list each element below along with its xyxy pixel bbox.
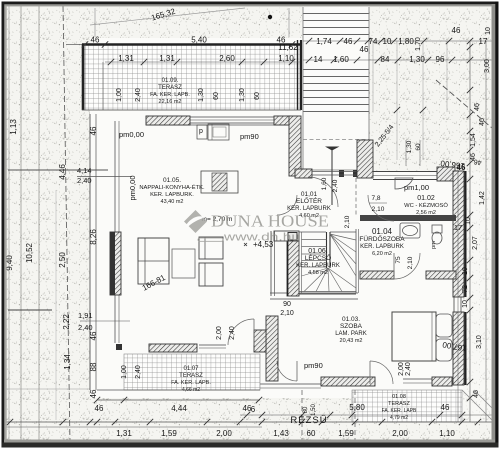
svg-text:1,54: 1,54 — [470, 133, 477, 147]
svg-text:1,42: 1,42 — [479, 191, 486, 205]
svg-text:60: 60 — [213, 92, 220, 100]
svg-text:01.06.: 01.06. — [308, 248, 328, 255]
svg-text:pm0,00: pm0,00 — [119, 130, 144, 139]
svg-text:www.dh.hu: www.dh.hu — [223, 232, 300, 244]
svg-text:4,79 m2: 4,79 m2 — [390, 415, 408, 421]
svg-text:pm90: pm90 — [240, 132, 259, 141]
svg-text:TERASZ: TERASZ — [388, 401, 410, 407]
svg-text:LAM. PARK: LAM. PARK — [335, 331, 367, 337]
svg-text:60: 60 — [254, 92, 261, 100]
svg-text:1,13: 1,13 — [9, 119, 18, 135]
svg-text:96: 96 — [436, 55, 445, 64]
svg-text:1,10: 1,10 — [439, 429, 455, 438]
svg-text:KER. LAPBURK.: KER. LAPBURK. — [150, 192, 194, 198]
svg-text:1,70: 1,70 — [415, 37, 422, 51]
svg-text:2,40: 2,40 — [77, 176, 92, 185]
svg-text:5,80: 5,80 — [349, 403, 365, 412]
svg-text:01,01: 01,01 — [301, 191, 318, 198]
svg-text:46: 46 — [95, 404, 104, 413]
svg-text:1,80: 1,80 — [398, 37, 414, 46]
svg-text:1,43: 1,43 — [273, 429, 289, 438]
svg-text:84: 84 — [381, 55, 390, 64]
svg-text:1,31: 1,31 — [116, 429, 132, 438]
svg-text:2,40: 2,40 — [405, 362, 412, 376]
svg-text:01.04: 01.04 — [372, 227, 393, 236]
svg-text:17: 17 — [479, 37, 488, 46]
svg-text:2,10: 2,10 — [280, 310, 294, 317]
svg-text:46: 46 — [479, 118, 486, 126]
svg-text:01.03.: 01.03. — [342, 316, 360, 323]
svg-text:FÜRDŐSZOBA: FÜRDŐSZOBA — [359, 234, 405, 243]
svg-text:01.09.: 01.09. — [162, 78, 179, 84]
svg-text:2,10: 2,10 — [344, 215, 351, 228]
svg-text:2,56 m2: 2,56 m2 — [416, 210, 436, 216]
svg-text:10: 10 — [383, 37, 392, 46]
svg-text:pm90: pm90 — [304, 361, 323, 370]
svg-text:2,00: 2,00 — [216, 326, 223, 340]
svg-text:17: 17 — [454, 223, 462, 232]
svg-text:KER. LAPBURK: KER. LAPBURK — [296, 263, 340, 269]
svg-text:ELŐTÉR: ELŐTÉR — [296, 196, 322, 205]
svg-text:TERASZ: TERASZ — [158, 85, 182, 91]
svg-text:1,00: 1,00 — [121, 365, 128, 379]
svg-text:8,26: 8,26 — [89, 229, 98, 245]
svg-text:2,10: 2,10 — [407, 256, 414, 269]
svg-text:FA. KER. LAPB: FA. KER. LAPB — [382, 408, 417, 414]
svg-text:46: 46 — [452, 26, 461, 35]
svg-text:TERASZ: TERASZ — [179, 373, 203, 379]
svg-text:75: 75 — [395, 256, 402, 264]
svg-text:46: 46 — [91, 36, 100, 45]
svg-text:3,10: 3,10 — [476, 335, 483, 349]
svg-text:FA. KER. LAPB.: FA. KER. LAPB. — [171, 380, 211, 386]
svg-text:1,30: 1,30 — [406, 140, 413, 153]
svg-text:NAPPALI-KONYHA-ÉTK.: NAPPALI-KONYHA-ÉTK. — [139, 184, 205, 191]
svg-text:88: 88 — [89, 362, 98, 371]
svg-text:SZOBA: SZOBA — [340, 323, 363, 330]
svg-text:1,60: 1,60 — [333, 55, 349, 64]
svg-text:4,66 m2: 4,66 m2 — [182, 387, 200, 393]
svg-text:1,50: 1,50 — [311, 404, 317, 416]
svg-text:46: 46 — [89, 389, 98, 398]
svg-text:6: 6 — [251, 405, 256, 414]
svg-text:90: 90 — [283, 301, 291, 308]
svg-text:01.07: 01.07 — [183, 366, 199, 372]
svg-text:pm1,00: pm1,00 — [404, 183, 429, 192]
svg-text:72: 72 — [462, 285, 469, 293]
svg-text:7,8: 7,8 — [371, 195, 380, 202]
svg-text:6,20 m2: 6,20 m2 — [372, 251, 392, 257]
svg-text:2,50: 2,50 — [58, 252, 67, 268]
svg-text:3,00: 3,00 — [484, 59, 491, 73]
svg-text:4,58 m2: 4,58 m2 — [308, 270, 328, 276]
svg-text:2,22: 2,22 — [62, 314, 71, 330]
svg-text:1,30: 1,30 — [198, 88, 205, 102]
svg-text:1,31: 1,31 — [118, 54, 134, 63]
svg-text:74: 74 — [369, 37, 378, 46]
svg-text:43,40 m2: 43,40 m2 — [161, 199, 184, 205]
svg-text:FA. KER. LAPB.: FA. KER. LAPB. — [150, 92, 190, 98]
svg-text:p: p — [199, 128, 203, 135]
svg-text:2,00: 2,00 — [216, 429, 232, 438]
svg-text:4,14: 4,14 — [77, 166, 92, 175]
svg-text:1,59: 1,59 — [338, 429, 354, 438]
svg-text:5,40: 5,40 — [191, 36, 207, 45]
svg-text:1,00: 1,00 — [116, 88, 123, 102]
svg-text:01.05.: 01.05. — [163, 177, 181, 184]
svg-text:80: 80 — [303, 406, 309, 413]
svg-text:01.08: 01.08 — [392, 394, 406, 400]
svg-text:4,46: 4,46 — [58, 164, 67, 180]
svg-text:46: 46 — [89, 126, 98, 135]
svg-text:1,59: 1,59 — [161, 429, 177, 438]
svg-text:22,16 m2: 22,16 m2 — [159, 99, 182, 105]
svg-text:2,40: 2,40 — [229, 326, 236, 340]
svg-text:46: 46 — [441, 403, 450, 412]
svg-text:WC - KÉZMOSÓ: WC - KÉZMOSÓ — [404, 202, 448, 209]
svg-text:60: 60 — [307, 429, 316, 438]
svg-text:46: 46 — [473, 158, 482, 166]
svg-text:DUNA HOUSE: DUNA HOUSE — [211, 212, 329, 231]
svg-text:pm: pm — [431, 241, 437, 249]
svg-text:4,44: 4,44 — [171, 404, 187, 413]
svg-text:60: 60 — [415, 143, 422, 151]
svg-text:2,60: 2,60 — [219, 54, 235, 63]
svg-text:2,40: 2,40 — [135, 88, 142, 102]
svg-text:KER. LAPBURK: KER. LAPBURK — [360, 244, 404, 250]
svg-text:2,40: 2,40 — [78, 323, 93, 332]
svg-text:46: 46 — [360, 45, 369, 54]
svg-text:1,30: 1,30 — [239, 88, 246, 102]
svg-text:2,00: 2,00 — [398, 362, 405, 376]
svg-text:10,52: 10,52 — [25, 242, 34, 263]
svg-text:RÉZSŰ: RÉZSŰ — [290, 415, 327, 426]
svg-text:46: 46 — [473, 390, 480, 398]
svg-text:20,43 m2: 20,43 m2 — [340, 338, 363, 344]
svg-text:1,91: 1,91 — [78, 311, 93, 320]
svg-text:1,60: 1,60 — [321, 177, 328, 190]
svg-text:pm0,00: pm0,00 — [128, 175, 137, 200]
svg-text:10: 10 — [465, 217, 472, 225]
svg-text:1,74: 1,74 — [316, 37, 332, 46]
svg-text:1,10: 1,10 — [278, 54, 294, 63]
svg-text:10: 10 — [485, 27, 492, 35]
svg-text:10: 10 — [462, 267, 469, 275]
svg-text:2,10: 2,10 — [372, 206, 385, 213]
svg-text:2,40: 2,40 — [332, 179, 339, 192]
svg-text:10: 10 — [462, 300, 469, 308]
svg-text:46: 46 — [474, 103, 481, 111]
svg-text:1,31: 1,31 — [159, 54, 175, 63]
svg-text:2,00: 2,00 — [392, 429, 408, 438]
svg-text:2,40: 2,40 — [135, 365, 142, 379]
svg-text:1,34: 1,34 — [63, 354, 72, 370]
svg-text:LÉPCSŐ: LÉPCSŐ — [305, 253, 331, 262]
svg-text:01.02: 01.02 — [417, 195, 435, 202]
svg-text:14: 14 — [314, 55, 323, 64]
svg-text:2,07: 2,07 — [472, 236, 479, 250]
svg-text:46: 46 — [89, 331, 98, 340]
svg-text:11,62: 11,62 — [278, 43, 298, 52]
svg-text:46: 46 — [344, 37, 353, 46]
svg-text:1,30: 1,30 — [409, 55, 425, 64]
